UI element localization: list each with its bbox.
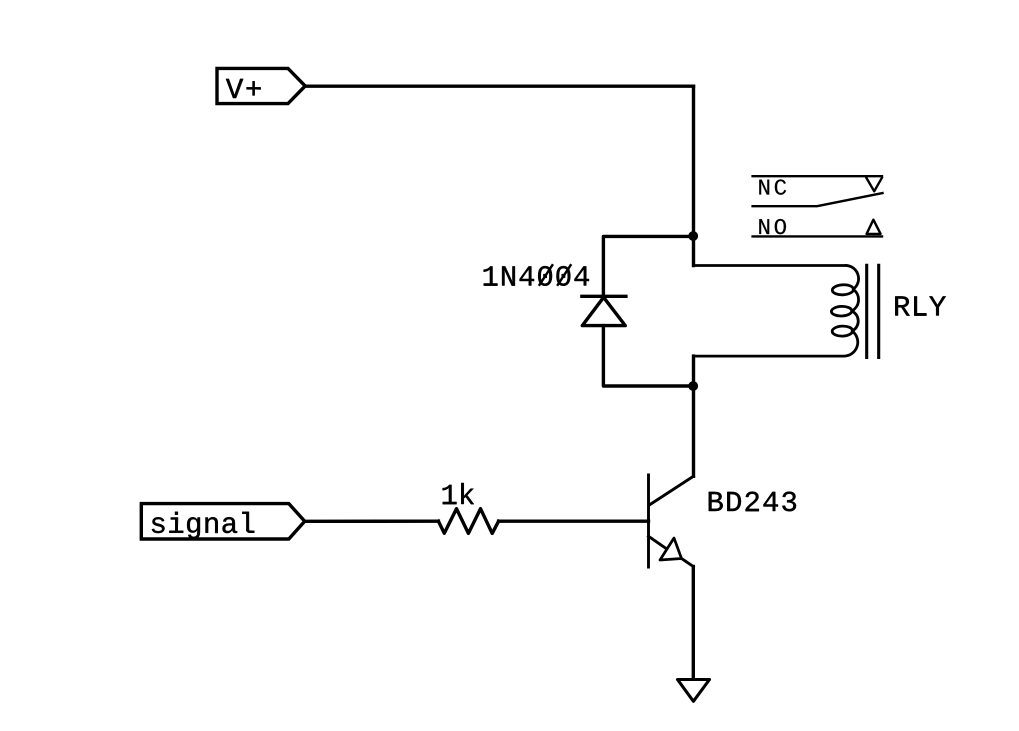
power flag V+ bbox=[217, 68, 305, 103]
relay core bar 1 bbox=[865, 265, 868, 357]
coil loop 3 bbox=[832, 326, 853, 337]
signal flag bbox=[141, 504, 304, 539]
relay common arm bbox=[753, 193, 883, 206]
coil winding bbox=[694, 265, 859, 356]
flag outline V+ bbox=[217, 68, 305, 103]
label NC bbox=[759, 179, 786, 194]
relay core bar 2 bbox=[877, 265, 880, 357]
label signal bbox=[152, 512, 254, 539]
node junction top bbox=[688, 231, 698, 241]
label BD243 bbox=[709, 492, 796, 512]
label 1N4004 text bbox=[484, 266, 589, 286]
coil loop 1 bbox=[832, 284, 854, 295]
relay contact NC line bbox=[753, 175, 882, 177]
Q1 emitter lead bbox=[649, 536, 667, 549]
transistor Q1 BD243 bbox=[649, 475, 694, 567]
relay NO arrow bbox=[867, 220, 881, 234]
relay NC arrow bbox=[867, 178, 882, 191]
wire V+ to main vertical bbox=[305, 84, 694, 87]
slashed zero mark 2 bbox=[558, 265, 571, 285]
diode D1 cathode bar bbox=[582, 295, 626, 298]
wire signal to resistor bbox=[305, 520, 439, 523]
Q1 emitter lead 2 bbox=[682, 559, 694, 567]
ground bbox=[678, 680, 710, 702]
relay contact NO line bbox=[753, 235, 882, 237]
label RLY bbox=[895, 296, 945, 315]
wire coil bottom to junction bbox=[692, 356, 695, 386]
relay coil RLY bbox=[694, 265, 859, 356]
slashed zero mark 1 bbox=[540, 265, 553, 285]
Q1 emitter arrow bbox=[660, 538, 682, 560]
coil loop 2 bbox=[831, 306, 852, 316]
wire diode anode to junction bottom bbox=[603, 326, 693, 386]
label 1N4004 bbox=[484, 265, 589, 286]
wire main vertical top bbox=[692, 86, 695, 265]
Q1 collector lead bbox=[649, 476, 693, 505]
resistor R1 1k bbox=[438, 509, 498, 534]
flag outline signal bbox=[141, 504, 304, 539]
label NO bbox=[759, 219, 786, 234]
diode D1 1N4004 bbox=[582, 296, 626, 325]
diode D1 anode triangle bbox=[582, 297, 625, 325]
label V+ bbox=[226, 79, 261, 98]
wire emitter down bbox=[692, 567, 695, 680]
node junction bottom bbox=[688, 381, 698, 391]
label 1k bbox=[443, 483, 474, 504]
wire resistor to base bbox=[499, 520, 649, 523]
Q1 base bar bbox=[647, 475, 650, 567]
wire junction to diode cathode bbox=[603, 236, 693, 296]
wire junction to collector bbox=[692, 386, 695, 476]
